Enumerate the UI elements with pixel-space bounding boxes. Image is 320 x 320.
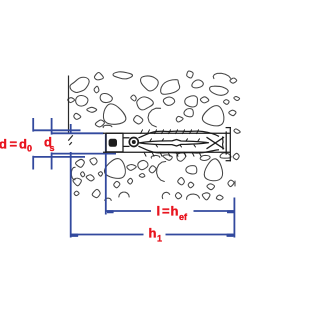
svg-text:=: =: [10, 137, 18, 152]
svg-text:=: =: [162, 204, 170, 219]
svg-text:1: 1: [157, 234, 162, 244]
svg-text:0: 0: [27, 144, 32, 154]
svg-text:ef: ef: [179, 212, 188, 222]
svg-text:h: h: [149, 226, 157, 241]
svg-text:s: s: [50, 143, 55, 153]
svg-text:h: h: [171, 204, 179, 219]
svg-text:d: d: [19, 137, 27, 152]
svg-text:d: d: [0, 137, 7, 152]
svg-text:l: l: [157, 204, 161, 219]
